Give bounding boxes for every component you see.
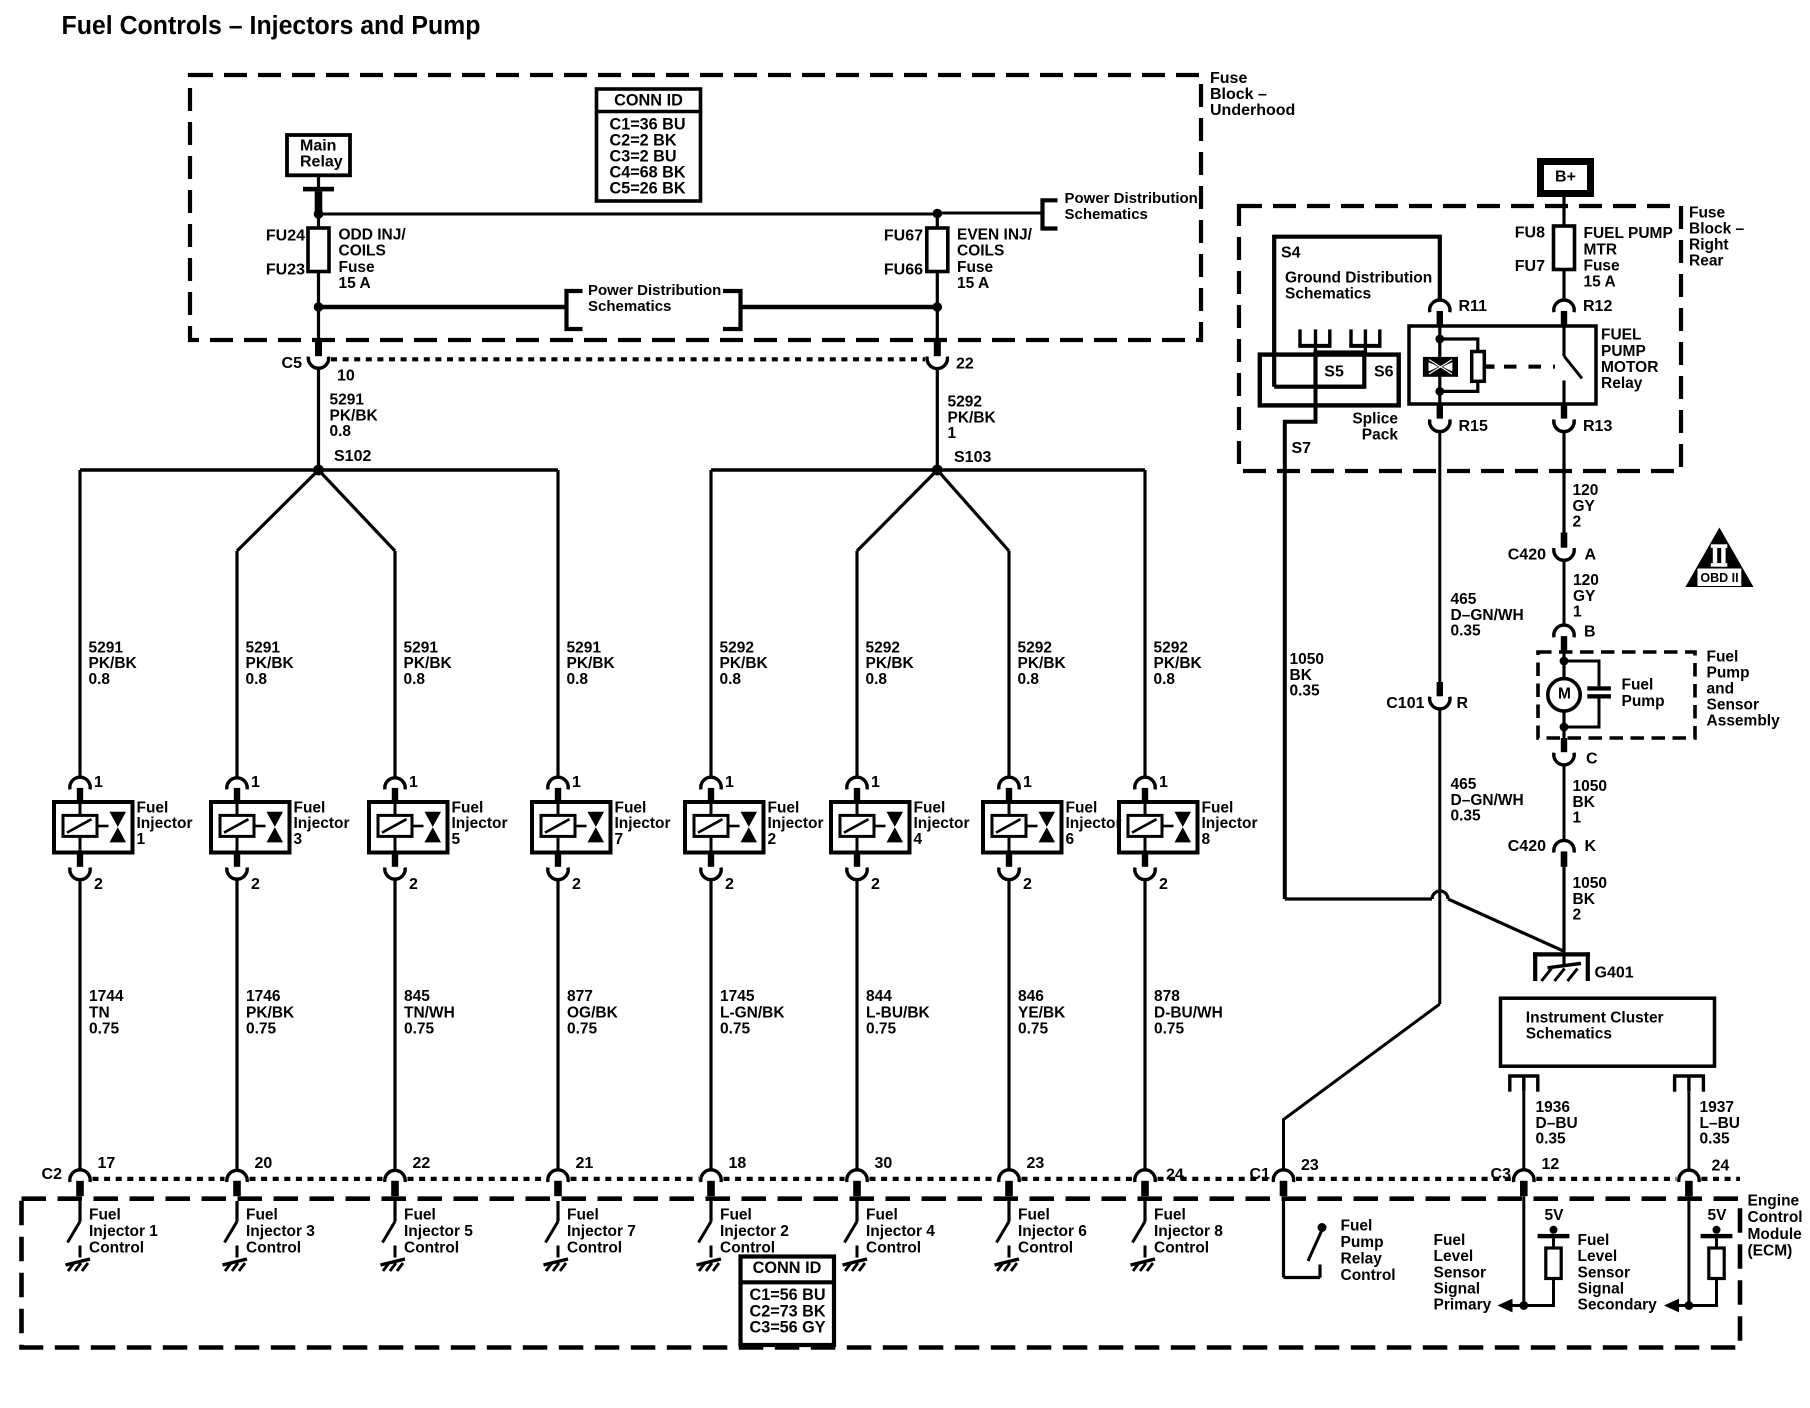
svg-text:Instrument Cluster: Instrument Cluster [1526, 1010, 1664, 1027]
bracket: power distribution (left) [567, 291, 583, 329]
svg-text:0.75: 0.75 [567, 1021, 598, 1038]
svg-text:FU66: FU66 [884, 261, 923, 278]
svg-text:Signal: Signal [1434, 1281, 1481, 1298]
wire label: 1050 BK 0.35 [1290, 651, 1324, 700]
label: Power Distribution Schematics (top right) [1065, 190, 1198, 223]
svg-text:COILS: COILS [957, 243, 1004, 260]
wire label: 5291 PK/BK 0.8 (feed) [330, 392, 379, 441]
svg-text:18: 18 [729, 1155, 747, 1172]
junction: relay coil bottom [1435, 387, 1444, 396]
connector C5 cavity 10 [308, 357, 328, 369]
svg-text:TN: TN [89, 1004, 110, 1021]
svg-text:0.8: 0.8 [720, 671, 742, 688]
wire label: 846 YE/BK 0.75 (injector 6 control) [1018, 988, 1066, 1037]
svg-text:2: 2 [1159, 876, 1168, 893]
svg-text:1: 1 [572, 774, 581, 791]
label: Splice Pack [1352, 411, 1398, 444]
svg-text:0.75: 0.75 [404, 1021, 435, 1038]
wire: relay resistor branch [1440, 339, 1478, 391]
wire: C3-24 to sensor signal node [1687, 1196, 1690, 1305]
svg-text:FUEL PUMP: FUEL PUMP [1584, 225, 1673, 242]
svg-text:Fuel: Fuel [1202, 799, 1234, 816]
svg-text:B+: B+ [1555, 168, 1576, 185]
connector C3 cavity 24 [1679, 1170, 1699, 1196]
svg-text:Splice: Splice [1352, 411, 1398, 428]
wire: R13 to C420-A [1562, 432, 1565, 533]
label: pin 1 (injector 4) [871, 774, 880, 791]
ECM driver: fuel injector 3 control [225, 1201, 238, 1258]
svg-text:1: 1 [94, 774, 103, 791]
svg-text:2: 2 [94, 876, 103, 893]
connector face dotted line (C5/C4) [331, 357, 925, 361]
svg-text:Fuel: Fuel [1341, 1218, 1373, 1235]
svg-text:FU24: FU24 [266, 228, 305, 245]
wire: branch to fuel injector 4 [855, 551, 858, 777]
svg-text:Control: Control [1748, 1209, 1803, 1226]
wire: S103 branch diagonal to injector 4 [857, 470, 937, 551]
label: Fuel Injector 1 [137, 799, 193, 848]
svg-text:D–GN/WH: D–GN/WH [1451, 792, 1524, 809]
svg-text:30: 30 [875, 1155, 893, 1172]
pump suppression capacitor [1564, 661, 1611, 727]
wire: feed bus y214 (odd fuse to even fuse) [319, 213, 938, 216]
svg-text:B: B [1584, 623, 1596, 640]
svg-text:PK/BK: PK/BK [404, 655, 453, 672]
svg-text:Power Distribution: Power Distribution [1065, 190, 1198, 207]
svg-text:C3: C3 [1491, 1166, 1512, 1183]
connector: injector 5 pin 1 [385, 778, 405, 802]
svg-text:Sensor: Sensor [1434, 1264, 1487, 1281]
svg-text:Level: Level [1434, 1248, 1474, 1265]
label: pin 10 [337, 368, 355, 385]
fuel injector 5 [369, 802, 448, 853]
svg-text:0.8: 0.8 [567, 671, 589, 688]
wire: C420-A to pump B [1563, 560, 1566, 625]
wire label: 5292 PK/BK 0.8 (injector 6) [1018, 639, 1067, 688]
wire: S4 to relay coil (R11 feed) [1438, 298, 1441, 301]
svg-text:10: 10 [337, 368, 355, 385]
connector C2 cavity 22 [385, 1170, 405, 1196]
label: ODD INJ/COILS Fuse 15 A [339, 227, 407, 293]
label: G401 [1595, 965, 1634, 982]
ECM driver: fuel pump relay control [1284, 1201, 1327, 1278]
svg-text:BK: BK [1573, 891, 1596, 908]
fuse block - right rear (dashed box) [1239, 206, 1681, 471]
svg-text:3: 3 [294, 831, 303, 848]
svg-text:845: 845 [404, 988, 430, 1005]
junction: pump bottom [1560, 723, 1569, 732]
svg-text:5V: 5V [1708, 1207, 1728, 1224]
connector: pump pin B [1554, 625, 1574, 652]
svg-text:L–BU: L–BU [1700, 1115, 1740, 1132]
wire: branch to fuel injector 8 [1143, 470, 1146, 777]
wire: splice pack S5 to S7 run [1285, 386, 1316, 899]
svg-text:0.75: 0.75 [1018, 1021, 1049, 1038]
svg-text:R15: R15 [1459, 418, 1488, 435]
svg-text:PK/BK: PK/BK [330, 407, 379, 424]
wire: 465 diagonal to C1 [1284, 1004, 1440, 1170]
label: pin 24 (C3) [1712, 1157, 1730, 1174]
wire label: 1050 BK 2 [1573, 875, 1607, 924]
svg-text:Module: Module [1748, 1226, 1803, 1243]
label: pin 12 (C3) [1542, 1156, 1560, 1173]
ground (injector 7 driver) [544, 1259, 569, 1271]
fuel pump and sensor assembly (dashed box) [1538, 652, 1695, 738]
label: C3 [1491, 1166, 1512, 1183]
svg-text:20: 20 [255, 1155, 273, 1172]
label: C5 [282, 355, 303, 372]
svg-text:Injector 5: Injector 5 [404, 1223, 473, 1240]
label: C1 [1250, 1166, 1271, 1183]
wire: injector 7 control to ECM [556, 880, 559, 1170]
svg-text:PK/BK: PK/BK [1018, 655, 1067, 672]
svg-text:1: 1 [1023, 774, 1032, 791]
splice S102 [313, 448, 371, 475]
svg-text:Pump: Pump [1341, 1234, 1384, 1251]
label: Fuel Injector 2 Control [720, 1206, 789, 1256]
label: pin 1 (injector 8) [1159, 774, 1168, 791]
svg-text:C: C [1586, 751, 1598, 768]
svg-text:Fuel: Fuel [866, 1206, 898, 1223]
svg-text:Fuel: Fuel [615, 799, 647, 816]
svg-text:120: 120 [1573, 572, 1599, 589]
label: R15 [1459, 418, 1488, 435]
relay switch [1564, 326, 1582, 404]
svg-text:5291: 5291 [404, 639, 439, 656]
svg-text:Fuel: Fuel [404, 1206, 436, 1223]
svg-text:Injector: Injector [1066, 815, 1122, 832]
svg-text:1: 1 [1159, 774, 1168, 791]
wire label: 1746 PK/BK 0.75 (injector 3 control) [246, 988, 295, 1037]
svg-text:Block –: Block – [1210, 86, 1267, 103]
svg-text:15 A: 15 A [339, 275, 371, 292]
wire: B+ to fuse FU8 [1562, 197, 1565, 226]
ground (injector 8 driver) [1131, 1259, 1156, 1271]
fuel injector 2 [685, 802, 764, 853]
svg-text:Injector 1: Injector 1 [89, 1223, 158, 1240]
svg-text:Pack: Pack [1362, 427, 1399, 444]
svg-text:5V: 5V [1545, 1207, 1565, 1224]
ECM driver: fuel injector 1 control [68, 1201, 81, 1258]
svg-text:S6: S6 [1374, 363, 1394, 380]
svg-text:L-BU/BK: L-BU/BK [866, 1004, 931, 1021]
wire: C to C420-K [1563, 765, 1566, 840]
label: pin 22 (C2) [413, 1155, 431, 1172]
wire label: 120 GY 2 [1573, 482, 1599, 531]
wire: ground run diagonal to G401 [1448, 899, 1565, 952]
svg-text:R13: R13 [1583, 418, 1612, 435]
connector: injector 5 pin 2 [385, 853, 405, 880]
fuse FU8/FU7 FUEL PUMP MTR 15A [1554, 226, 1575, 300]
label: pin 1 (injector 5) [409, 774, 418, 791]
connector: injector 2 pin 2 [701, 853, 721, 880]
fuel injector 8 [1119, 802, 1198, 853]
ground G401 [1533, 952, 1590, 981]
CONN ID table (ECM connectors) [741, 1257, 835, 1346]
instrument cluster reference box [1501, 998, 1715, 1066]
svg-text:Control: Control [246, 1240, 301, 1257]
connector C2 cavity 17 [70, 1170, 90, 1196]
svg-text:5291: 5291 [330, 392, 365, 409]
label: pin 22 [956, 355, 974, 372]
connector C101 cavity R [1430, 697, 1450, 709]
ECM driver: fuel injector 7 control [546, 1201, 559, 1258]
svg-text:5: 5 [452, 831, 461, 848]
svg-text:Injector: Injector [1202, 815, 1258, 832]
wire: injector 2 control to ECM [709, 880, 712, 1170]
svg-text:0.35: 0.35 [1451, 623, 1482, 640]
svg-text:8: 8 [1202, 831, 1211, 848]
svg-text:Signal: Signal [1578, 1281, 1625, 1298]
svg-text:1744: 1744 [89, 988, 124, 1005]
connector: injector 7 pin 1 [548, 777, 568, 802]
label: FU7 [1515, 258, 1545, 275]
wire label: 1936 D-BU 0.35 [1536, 1099, 1578, 1148]
wire: R15 to C101 [1438, 432, 1441, 682]
svg-text:D-BU/WH: D-BU/WH [1154, 1004, 1223, 1021]
wire: main relay to pin bar [317, 175, 320, 188]
connector: injector 8 pin 2 [1135, 853, 1155, 880]
wire: cluster to C3-12 [1522, 1092, 1525, 1170]
svg-text:BK: BK [1290, 667, 1313, 684]
junction: even fuse output [933, 302, 943, 312]
svg-text:0.35: 0.35 [1536, 1131, 1567, 1148]
wire: power distribution line (right segment) [741, 305, 937, 310]
svg-text:Underhood: Underhood [1210, 102, 1295, 119]
label: FUEL PUMP MTR Fuse 15 A [1584, 225, 1673, 291]
pin: C4 cavity 22 (male stub) [934, 342, 941, 357]
svg-text:M: M [1558, 686, 1571, 703]
wire: injector 8 control to ECM [1143, 880, 1146, 1170]
splice S5 (box) [1316, 353, 1365, 387]
label: FU66 [884, 261, 923, 278]
svg-text:23: 23 [1027, 1155, 1045, 1172]
svg-text:1745: 1745 [720, 988, 755, 1005]
label: Fuel Injector 2 [768, 799, 824, 848]
label: B [1584, 623, 1596, 640]
svg-text:Injector: Injector [914, 815, 970, 832]
svg-text:1: 1 [137, 831, 146, 848]
junction: even inj feed [933, 209, 943, 219]
label: R13 [1583, 418, 1612, 435]
svg-text:PK/BK: PK/BK [866, 655, 915, 672]
junction: fuel level secondary signal [1685, 1301, 1694, 1310]
svg-text:MTR: MTR [1584, 241, 1618, 258]
relay actuation dashed link [1504, 365, 1555, 369]
wire label: 120 GY 1 [1573, 572, 1599, 621]
svg-text:Fuel: Fuel [1707, 648, 1739, 665]
fuse block - underhood (dashed box) [190, 75, 1201, 340]
wire: feed to power dist bracket (top right) [937, 212, 1040, 215]
svg-text:ODD INJ/: ODD INJ/ [339, 227, 407, 244]
label: Power Distribution Schematics (mid) [588, 282, 721, 315]
svg-text:Fuse: Fuse [957, 259, 994, 276]
main relay (box) [287, 135, 350, 175]
svg-text:C5: C5 [282, 355, 303, 372]
wire: resistor to signal node (primary) [1505, 1279, 1554, 1306]
wire: 22 to splice S103 [936, 369, 939, 470]
svg-text:Primary: Primary [1434, 1297, 1492, 1314]
label: pin 1 (injector 1) [94, 774, 103, 791]
svg-text:S4: S4 [1281, 245, 1301, 262]
label: C420 (A) [1508, 547, 1546, 564]
svg-text:1: 1 [725, 774, 734, 791]
svg-text:Relay: Relay [300, 153, 343, 170]
wire: C3-12 to sensor signal node [1522, 1196, 1525, 1305]
svg-text:1: 1 [251, 774, 260, 791]
splice pack connector (left comb) [1298, 329, 1331, 352]
svg-text:C420: C420 [1508, 838, 1546, 855]
svg-text:Fuel: Fuel [768, 799, 800, 816]
junction: pump top [1560, 657, 1569, 666]
label: C101 [1386, 695, 1424, 712]
connector R11 [1430, 300, 1450, 326]
svg-text:PK/BK: PK/BK [89, 655, 138, 672]
label: C420 (K) [1508, 838, 1546, 855]
junction: odd fuse output [314, 302, 324, 312]
svg-text:1: 1 [1573, 604, 1582, 621]
svg-text:7: 7 [615, 831, 624, 848]
svg-text:FU23: FU23 [266, 261, 305, 278]
wire label: 5292 PK/BK 0.8 (injector 8) [1154, 639, 1203, 688]
label: pin 2 (injector 5) [409, 876, 418, 893]
svg-text:Fuse: Fuse [1689, 204, 1726, 221]
label: R [1457, 695, 1469, 712]
wire: even injector bus (horizontal) [711, 468, 1145, 471]
wire label: 1744 TN 0.75 (injector 1 control) [89, 988, 124, 1037]
svg-text:0.75: 0.75 [89, 1021, 120, 1038]
svg-text:2: 2 [409, 876, 418, 893]
ground (injector 3 driver) [223, 1259, 248, 1271]
svg-text:Fuel: Fuel [1434, 1232, 1466, 1249]
label: pin 2 (injector 8) [1159, 876, 1168, 893]
svg-text:Fuse: Fuse [1210, 70, 1247, 87]
svg-text:Schematics: Schematics [588, 298, 671, 315]
label: FU67 [884, 228, 923, 245]
connector R13 [1554, 404, 1574, 432]
svg-text:0.35: 0.35 [1451, 808, 1482, 825]
svg-text:R11: R11 [1459, 298, 1488, 315]
svg-text:D–BU: D–BU [1536, 1115, 1578, 1132]
ground (injector 6 driver) [995, 1259, 1020, 1271]
label: Fuel Injector 7 Control [567, 1206, 636, 1256]
connector: injector 7 pin 2 [548, 853, 568, 880]
svg-text:5291: 5291 [89, 639, 124, 656]
connector: injector 4 pin 1 [847, 777, 867, 802]
svg-text:CONN ID: CONN ID [753, 1259, 822, 1277]
svg-text:5292: 5292 [1154, 639, 1188, 656]
label: pin 18 (C2) [729, 1155, 747, 1172]
wire: relay coil branch (vertical) [1438, 326, 1441, 404]
ECM driver: fuel injector 2 control [699, 1201, 712, 1258]
label: K [1585, 838, 1597, 855]
svg-text:Fuel: Fuel [1066, 799, 1098, 816]
connector C4 cavity 22 [927, 357, 947, 369]
svg-text:Assembly: Assembly [1707, 713, 1781, 730]
junction: relay coil top [1435, 335, 1444, 344]
junction: odd inj feed [314, 209, 324, 219]
svg-text:Control: Control [89, 1240, 144, 1257]
svg-text:Schematics: Schematics [1526, 1026, 1612, 1043]
svg-text:S103: S103 [954, 449, 991, 466]
svg-text:0.8: 0.8 [404, 671, 426, 688]
connector: injector 1 pin 1 [70, 777, 90, 802]
wire label: 5291 PK/BK 0.8 (injector 5) [404, 639, 453, 688]
wire: branch to fuel injector 7 [556, 470, 559, 777]
svg-text:FUEL: FUEL [1601, 327, 1641, 344]
svg-text:0.8: 0.8 [89, 671, 111, 688]
svg-text:465: 465 [1451, 591, 1477, 608]
label: FU24 [266, 228, 305, 245]
svg-text:5292: 5292 [948, 394, 982, 411]
wire label: 5291 PK/BK 0.8 (injector 7) [567, 639, 616, 688]
wire label: 1937 L-BU 0.35 [1700, 1099, 1740, 1148]
svg-text:465: 465 [1451, 776, 1477, 793]
label: pin 2 (injector 2) [725, 876, 734, 893]
svg-text:Block –: Block – [1689, 220, 1745, 237]
label: pin 24 (C2) [1166, 1167, 1184, 1184]
ground (injector 4 driver) [843, 1259, 868, 1271]
svg-text:C1: C1 [1250, 1166, 1271, 1183]
label: Fuse Block - Right Rear [1689, 204, 1745, 269]
fuel injector 1 [54, 802, 133, 853]
svg-text:846: 846 [1018, 988, 1044, 1005]
svg-text:22: 22 [956, 355, 974, 372]
wire: S7 ground run horizontal [1285, 897, 1432, 900]
pull-up resistor (secondary) [1709, 1248, 1724, 1279]
label: pin 23 (C1) [1301, 1157, 1319, 1174]
label: S6 [1374, 363, 1394, 380]
svg-text:844: 844 [866, 988, 892, 1005]
label: EVEN INJ/COILS Fuse 15 A [957, 227, 1033, 293]
svg-text:Engine: Engine [1748, 1193, 1800, 1210]
svg-text:Injector 6: Injector 6 [1018, 1223, 1087, 1240]
wire: C101 down [1438, 709, 1441, 1004]
svg-text:12: 12 [1542, 1156, 1560, 1173]
label: Fuel Pump and Sensor Assembly [1707, 648, 1781, 729]
connector: injector 8 pin 1 [1135, 777, 1155, 802]
svg-text:Sensor: Sensor [1707, 697, 1760, 714]
pull-up resistor (primary) [1546, 1248, 1561, 1279]
svg-text:Fuse: Fuse [339, 259, 376, 276]
svg-text:Injector 8: Injector 8 [1154, 1223, 1223, 1240]
title: Fuel Controls - Injectors and Pump [62, 12, 481, 40]
wire: power distribution line (left segment) [319, 305, 566, 310]
svg-text:C101: C101 [1386, 695, 1424, 712]
label: pin 20 (C2) [255, 1155, 273, 1172]
fuse FU67/FU66 EVEN INJ/COILS 15A [927, 214, 948, 307]
svg-text:Fuel: Fuel [89, 1206, 121, 1223]
wire: injector 4 control to ECM [855, 880, 858, 1170]
svg-text:0.8: 0.8 [1154, 671, 1176, 688]
svg-text:Fuel: Fuel [452, 799, 484, 816]
svg-text:FU67: FU67 [884, 228, 923, 245]
connector: injector 6 pin 2 [999, 853, 1019, 880]
label: FU23 [266, 261, 305, 278]
svg-text:Secondary: Secondary [1578, 1297, 1658, 1314]
svg-text:Fuel: Fuel [137, 799, 169, 816]
svg-text:5291: 5291 [567, 639, 602, 656]
svg-text:Injector: Injector [615, 815, 671, 832]
svg-text:1: 1 [948, 425, 957, 442]
svg-text:Pump: Pump [1622, 693, 1665, 710]
fuel injector 4 [831, 802, 910, 853]
label: pin 21 (C2) [576, 1155, 594, 1172]
svg-text:2: 2 [251, 876, 260, 893]
label: pin 23 (C2) [1027, 1155, 1045, 1172]
wire label: 877 OG/BK 0.75 (injector 7 control) [567, 988, 619, 1037]
engine control module (dashed box) [22, 1199, 1741, 1348]
